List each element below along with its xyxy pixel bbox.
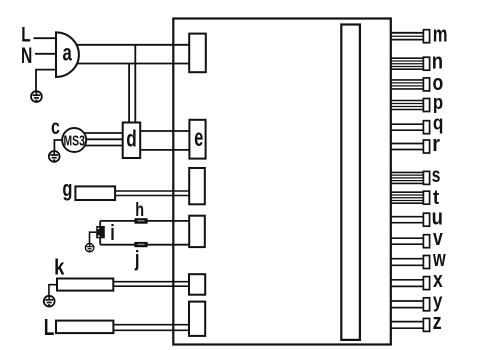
wire N lead to inlet a bbox=[35, 53, 56, 55]
wire L line 1 bbox=[113, 324, 189, 326]
wire d to e line 2 bbox=[140, 149, 189, 151]
terminal box 3 (sensor g) bbox=[189, 168, 205, 204]
wire MS3 to box d line 3 bbox=[84, 145, 123, 147]
terminal box e bbox=[189, 120, 205, 159]
svg-text:N: N bbox=[21, 45, 32, 69]
wire g line 1 bbox=[115, 190, 189, 192]
svg-text:m: m bbox=[433, 22, 448, 47]
terminal o wire (4 lines) bbox=[391, 80, 424, 89]
terminal u pin bbox=[423, 213, 429, 226]
sensor g body bbox=[75, 186, 115, 200]
connector strip bar inside control unit bbox=[341, 25, 360, 340]
junction box d bbox=[123, 123, 141, 159]
svg-text:p: p bbox=[433, 90, 443, 113]
heating element k body bbox=[57, 279, 113, 291]
svg-text:c: c bbox=[51, 115, 60, 139]
svg-text:n: n bbox=[432, 50, 443, 74]
svg-text:a: a bbox=[63, 41, 73, 66]
svg-text:L: L bbox=[21, 22, 31, 46]
terminal u wire (2 lines) bbox=[391, 217, 424, 223]
svg-text:s: s bbox=[432, 163, 441, 187]
terminal m wire (3 lines) bbox=[391, 33, 424, 40]
terminal w wire (2 lines) bbox=[391, 259, 424, 266]
control unit main box bbox=[173, 19, 390, 345]
terminal y pin bbox=[423, 298, 429, 311]
svg-text:d: d bbox=[126, 127, 136, 152]
terminal t wire (5 lines) bbox=[391, 192, 424, 203]
svg-text:j: j bbox=[134, 247, 139, 272]
wire a to terminal box line 2 bbox=[64, 63, 189, 65]
svg-text:e: e bbox=[194, 125, 203, 152]
fuse h body bbox=[134, 218, 147, 224]
wire k line 1 bbox=[113, 281, 189, 283]
terminal r wire (2 lines) bbox=[391, 144, 424, 150]
terminal n pin bbox=[423, 57, 429, 70]
wire earth lead from k bbox=[49, 285, 57, 297]
ground symbol below i bbox=[85, 243, 93, 251]
wire vertical drop line1 to box d bbox=[134, 45, 136, 123]
terminal v pin bbox=[423, 235, 429, 248]
svg-text:L: L bbox=[44, 314, 55, 340]
wire earth lead from switch i bbox=[90, 232, 97, 244]
switch i body bbox=[96, 226, 105, 238]
terminal p pin bbox=[423, 99, 429, 112]
svg-text:MS3: MS3 bbox=[64, 131, 85, 148]
terminal q pin bbox=[423, 121, 429, 134]
wire j to terminal box 4 bbox=[100, 244, 189, 246]
terminal box 6 (element L) bbox=[189, 302, 205, 336]
wire d to e line 1 bbox=[140, 130, 189, 132]
svg-text:i: i bbox=[110, 220, 115, 245]
wire L line 2 bbox=[113, 329, 189, 331]
wire earth branch from inlet a bbox=[36, 70, 56, 92]
heating element L body bbox=[56, 321, 113, 334]
terminal w pin bbox=[423, 256, 429, 269]
terminal y wire (2 lines) bbox=[391, 301, 424, 308]
wire vertical drop line2 to box d bbox=[128, 64, 130, 123]
terminal s pin bbox=[423, 171, 429, 184]
wire a to terminal box line 1 bbox=[64, 44, 189, 46]
svg-text:k: k bbox=[54, 255, 65, 280]
ground symbol below c bbox=[49, 151, 60, 162]
terminal o pin bbox=[423, 78, 429, 91]
terminal v wire (2 lines) bbox=[391, 238, 424, 244]
terminal box 1 (inlet a) bbox=[189, 34, 206, 73]
svg-text:r: r bbox=[432, 132, 440, 156]
wire MS3 to box d line 2 bbox=[84, 138, 123, 140]
svg-text:h: h bbox=[135, 198, 144, 221]
wire L lead to inlet a bbox=[34, 37, 57, 39]
terminal x pin bbox=[423, 277, 429, 290]
svg-text:y: y bbox=[433, 289, 443, 312]
svg-text:z: z bbox=[433, 310, 442, 334]
terminal t pin bbox=[423, 191, 429, 204]
terminal q wire (2 lines) bbox=[391, 124, 424, 130]
terminal z wire (2 lines) bbox=[391, 322, 424, 329]
wire k line 2 bbox=[113, 285, 189, 287]
wire MS3 to box d line 1 bbox=[84, 132, 123, 134]
terminal s wire (5 lines) bbox=[391, 172, 424, 183]
terminal r pin bbox=[423, 140, 429, 153]
wire h to terminal box 4 bbox=[100, 220, 189, 222]
terminal box 4 (h i j) bbox=[189, 216, 205, 247]
terminal m pin bbox=[423, 30, 429, 43]
terminal x wire (2 lines) bbox=[391, 280, 424, 287]
ground symbol below k bbox=[44, 296, 55, 307]
motor MS3 circle bbox=[62, 128, 86, 152]
fuse j body bbox=[134, 242, 147, 247]
svg-text:g: g bbox=[62, 177, 72, 202]
wire earth lead from motor MS3 bbox=[54, 140, 63, 151]
terminal n wire (5 lines) bbox=[391, 58, 424, 69]
power inlet a (D-shape) bbox=[56, 32, 79, 77]
terminal z pin bbox=[423, 318, 429, 331]
wire vertical joining h and j bbox=[99, 221, 101, 245]
wire g line 2 bbox=[115, 195, 189, 197]
terminal box 5 (element k) bbox=[189, 274, 205, 295]
terminal p wire (4 lines) bbox=[391, 101, 424, 110]
ground symbol below inlet a bbox=[31, 91, 42, 102]
